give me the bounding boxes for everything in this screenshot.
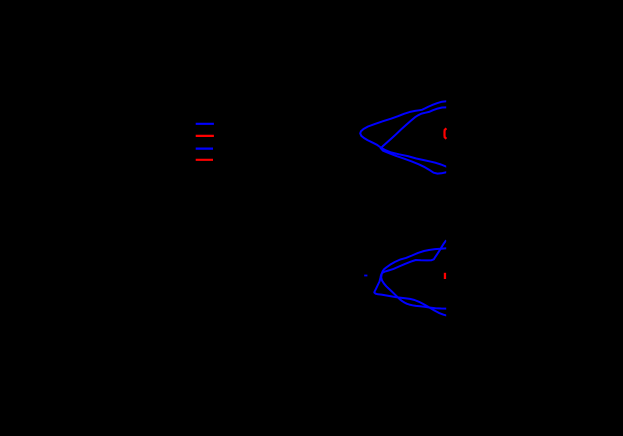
red dash marker bottom attractor [444,273,446,279]
top attractor curve S (steep line from top right, fold at junction, dipping return) [381,107,447,173]
legend key line 2 (red) [196,135,214,137]
red marker arc (clipped circle) top attractor [445,128,447,139]
bottom attractor segment S1 (steep entry, shelf, blob, fold at lower-left vertex, return to lower right) [374,240,447,315]
legend key line 3 (blue) [196,148,213,150]
legend key line 1 (blue) [196,123,214,125]
blue dash marker bottom attractor [364,275,367,277]
top attractor curve U (flat upper line, fold at left vertex, lower flat return) [360,101,447,167]
legend key line 4 (red) [196,159,213,161]
bottom attractor segment S2 (flat entry from right, through blob, lens crossing, exit lower right) [381,248,447,308]
